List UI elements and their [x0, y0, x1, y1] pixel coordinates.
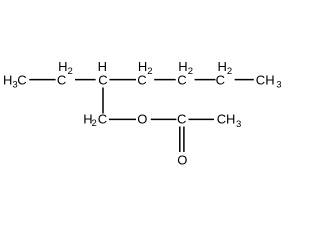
svg-text:O: O	[137, 111, 147, 126]
wire bond C2-C3	[75, 79, 96, 81]
wire bond C5-C6	[195, 79, 216, 81]
wire bond O-C(carbonyl)	[151, 118, 177, 120]
svg-text:C: C	[57, 73, 66, 88]
svg-text:C: C	[98, 73, 107, 88]
node CH3 (methyl group, top-right)	[256, 73, 282, 91]
wire bond C6-CH3	[235, 79, 254, 81]
svg-text:C: C	[217, 111, 226, 126]
svg-text:C: C	[177, 73, 186, 88]
wire bond C3-C4	[109, 79, 136, 81]
svg-text:C: C	[177, 111, 186, 126]
svg-text:3: 3	[276, 80, 281, 91]
svg-text:C: C	[216, 73, 225, 88]
node C4 (CH2)	[137, 59, 152, 87]
node H3C (methyl group, top-left)	[3, 73, 27, 91]
wire bond H3C-C2	[29, 79, 55, 81]
node C3 (CH, branch carbon)	[98, 59, 108, 87]
node H2C (branch methylene)	[83, 111, 107, 129]
svg-text:2: 2	[188, 66, 193, 77]
svg-text:O: O	[177, 153, 187, 168]
svg-text:H: H	[226, 111, 235, 126]
wire double bond C=O	[180, 127, 184, 153]
svg-text:H: H	[265, 73, 274, 88]
wire bond CH2-O	[109, 118, 136, 120]
svg-text:2: 2	[227, 66, 232, 77]
wire bond C-CH3 (acetyl)	[189, 118, 215, 120]
svg-text:2: 2	[147, 66, 152, 77]
node C2 (CH2)	[57, 59, 73, 87]
svg-text:3: 3	[236, 119, 241, 130]
node CH3 (acetyl methyl, bottom-right)	[217, 111, 241, 130]
svg-text:2: 2	[68, 66, 73, 77]
node C6 (CH2)	[216, 59, 233, 87]
svg-text:H: H	[3, 73, 12, 88]
wire bond C3-CH2 (vertical branch)	[102, 88, 104, 114]
svg-text:C: C	[98, 111, 107, 126]
svg-text:2: 2	[92, 118, 97, 129]
node C5 (CH2)	[177, 59, 193, 87]
svg-text:C: C	[17, 73, 26, 88]
svg-text:C: C	[256, 73, 265, 88]
svg-text:C: C	[137, 73, 146, 88]
wire bond C4-C5	[154, 79, 176, 81]
